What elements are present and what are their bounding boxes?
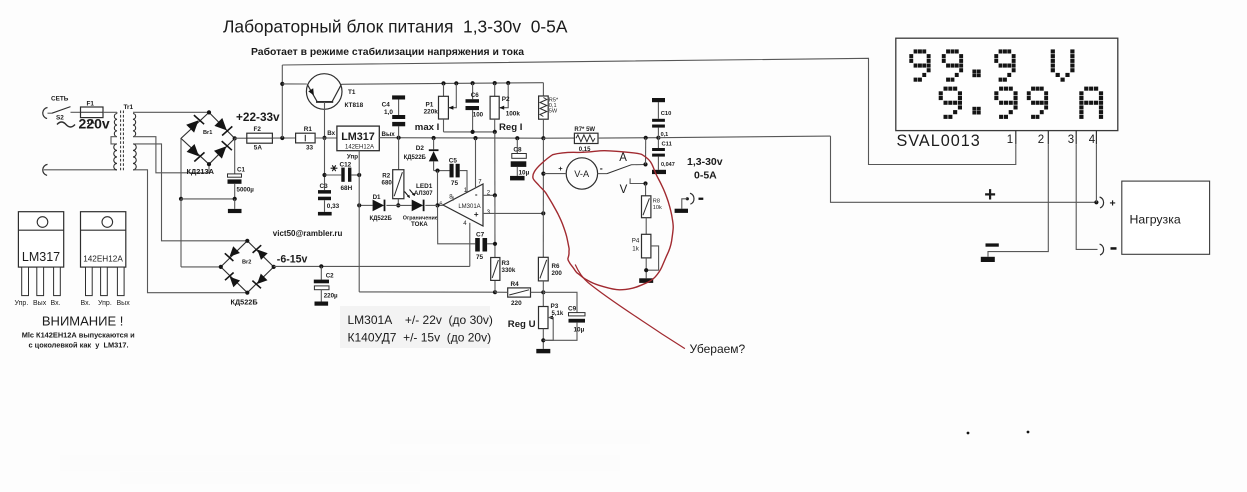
- display digit 9 (V tenths): [994, 49, 1015, 81]
- wire C10 to ground: [657, 102, 659, 119]
- wire to R4: [495, 291, 508, 293]
- load box Нагрузка: [1122, 181, 1210, 254]
- wire rail to plus corner: [658, 136, 830, 138]
- capacitor C1 electrolytic: [228, 174, 242, 177]
- wire VA minus lead: [598, 173, 607, 175]
- fuse F1: [81, 107, 104, 118]
- wire to C2: [320, 266, 322, 279]
- svg-text:ВНИМАНИЕ !: ВНИМАНИЕ !: [42, 313, 124, 328]
- svg-text:C5: C5: [449, 158, 458, 165]
- 142EH12A pkg pin1: [86, 267, 93, 296]
- svg-text:10k: 10k: [653, 205, 662, 211]
- wire C4 to ground: [398, 100, 400, 116]
- node P1 top: [441, 81, 445, 85]
- wire C8 to ground: [516, 167, 518, 176]
- svg-text:100: 100: [473, 112, 484, 119]
- svg-text:D2: D2: [416, 145, 425, 152]
- wire C3 column: [324, 138, 326, 190]
- wire to C6: [472, 83, 474, 99]
- svg-text:Reg U: Reg U: [508, 319, 536, 330]
- wire ADJ rail left: [359, 291, 495, 293]
- svg-text:-6-15v: -6-15v: [277, 254, 308, 266]
- stray dot 1: [967, 432, 970, 435]
- node ground bus left: [179, 197, 183, 201]
- pin 1 tick: [1015, 131, 1017, 145]
- node C12 left: [322, 173, 326, 177]
- wire D1 to LED1: [386, 204, 411, 206]
- display digit 9 (A units): [939, 87, 962, 119]
- wire to C9: [543, 292, 577, 312]
- svg-text:P4: P4: [632, 237, 640, 244]
- wire Upr to D1: [359, 204, 372, 206]
- node C12 right: [357, 173, 361, 177]
- node C8: [515, 136, 519, 140]
- wire feedback column upper: [494, 132, 496, 196]
- wire feedback column lower: [494, 195, 496, 292]
- ground P4: [639, 278, 653, 283]
- wire to output node: [437, 171, 439, 206]
- switch SA blade: [607, 165, 632, 174]
- resistor R8: [642, 196, 651, 218]
- wire rail to R7: [543, 137, 574, 139]
- svg-text:68Н: 68Н: [341, 185, 353, 192]
- svg-text:R2: R2: [382, 172, 390, 179]
- wire switch to F1: [71, 111, 81, 113]
- svg-text:200: 200: [552, 270, 563, 277]
- ground C4 top: [392, 95, 405, 99]
- svg-text:R8: R8: [653, 199, 660, 205]
- svg-text:2: 2: [1038, 134, 1044, 146]
- wire secondary lower bottom to Br2 bottom: [133, 170, 247, 293]
- wire switch pivot: [48, 112, 53, 114]
- svg-text:Tr1: Tr1: [124, 104, 134, 111]
- node C5 left: [435, 169, 439, 173]
- wire R2 bottom: [397, 199, 399, 206]
- wire top line to display pin1: [282, 58, 1016, 164]
- svg-text:КД522Б: КД522Б: [231, 297, 258, 306]
- svg-text:3: 3: [1068, 134, 1074, 146]
- wire pin8 stub: [452, 196, 454, 201]
- svg-text:1,0: 1,0: [384, 109, 393, 116]
- svg-text:142ЕН12А: 142ЕН12А: [345, 145, 374, 151]
- node riser bottom: [280, 136, 284, 140]
- svg-text:V: V: [620, 184, 628, 196]
- Br1 diode bottom-right: [214, 146, 226, 158]
- wire P1 bottom: [443, 119, 445, 132]
- LED1 arrows: [405, 192, 410, 198]
- svg-text:330k: 330k: [502, 267, 516, 274]
- svg-text:LM317: LM317: [22, 250, 60, 264]
- node C1 ground bus: [233, 197, 237, 201]
- svg-text:max I: max I: [415, 122, 440, 133]
- svg-text:R1: R1: [304, 126, 313, 133]
- wire down to Br2 left: [180, 199, 182, 267]
- svg-text:Упр.: Упр.: [15, 300, 29, 307]
- Br1 diode top-right: [214, 118, 226, 130]
- node V contact: [643, 181, 647, 185]
- wire to T1 emitter: [282, 83, 307, 85]
- display digit 9 (A tenths): [994, 87, 1017, 119]
- capacitor C11: [652, 148, 665, 151]
- wire rail to A contact: [645, 138, 647, 165]
- Br1 diode top-left: [186, 120, 198, 132]
- mains terminal lower arc: [43, 164, 48, 175]
- wire to P1: [443, 83, 445, 96]
- node emitter tap: [280, 82, 284, 86]
- wire riser to top line: [281, 65, 283, 138]
- svg-text:5A: 5A: [254, 145, 263, 152]
- ~ symbol: [57, 122, 75, 127]
- wire D2 to C5: [434, 170, 450, 172]
- svg-text:C12: C12: [340, 162, 352, 169]
- resistor R1: [296, 133, 316, 143]
- wire C4 lead: [398, 126, 400, 137]
- wire R5 to rail: [542, 119, 544, 138]
- wire T1 base down: [324, 102, 326, 138]
- svg-text:C7: C7: [476, 232, 485, 239]
- label C12 asterisk: [331, 165, 338, 171]
- capacitor C8 electrolytic: [512, 154, 527, 159]
- wire P1 wiper: [448, 83, 456, 107]
- wire A contact tick: [632, 164, 646, 166]
- svg-text:Вых: Вых: [117, 300, 131, 307]
- display letter A: [1079, 87, 1103, 119]
- svg-text:Вх: Вх: [327, 130, 335, 137]
- svg-text:0,33: 0,33: [327, 203, 340, 210]
- svg-text:C8: C8: [513, 147, 522, 154]
- wire rail after R7: [598, 137, 658, 139]
- 142EH12A pkg pin3: [117, 267, 124, 296]
- svg-text:Лабораторный блок питания 1,3: Лабораторный блок питания 1,3-30v 0-5А: [223, 16, 568, 36]
- ground display minus: [981, 257, 995, 262]
- wire pin3: [483, 212, 543, 214]
- pin 3 tick: [1075, 131, 1077, 145]
- wire C12 to Upr column: [351, 174, 359, 176]
- wire P2 bottom: [494, 119, 496, 132]
- fuse F2: [247, 133, 273, 143]
- red freehand loop annotation: [533, 151, 673, 290]
- capacitor C10: [652, 125, 665, 128]
- svg-text:C11: C11: [662, 142, 673, 148]
- Br2 diode bottom-right: [257, 274, 267, 284]
- display digit 9 (V tens): [909, 49, 930, 81]
- wire pin7 supply: [475, 138, 477, 188]
- node plus terminal: [1094, 200, 1098, 204]
- display digit 9 (A hundredths): [1027, 87, 1048, 119]
- resistor R2: [393, 170, 404, 199]
- wire output to C7: [438, 205, 476, 243]
- node P2 bus: [493, 130, 497, 134]
- capacitor C12: [341, 168, 344, 182]
- svg-text:T1: T1: [348, 89, 356, 96]
- node A contact: [643, 162, 647, 166]
- wire secondary upper top to Br1 top: [133, 111, 209, 113]
- pin 4 tick: [1095, 131, 1097, 145]
- diode D1: [373, 200, 385, 212]
- node output: [435, 203, 439, 207]
- wire rail to C8: [516, 138, 518, 153]
- wire C10 lead: [657, 128, 659, 138]
- ground C8: [510, 176, 525, 181]
- svg-text:ТОКА: ТОКА: [411, 221, 428, 228]
- bridge rectifier Br1 diamond: [181, 112, 235, 164]
- node Br1 bottom: [207, 162, 211, 166]
- wire F2 to R1: [272, 137, 295, 139]
- svg-text:Мlс К142ЕН12А выпускаются и: Мlс К142ЕН12А выпускаются и: [22, 330, 135, 339]
- wire to C12: [325, 174, 342, 176]
- svg-text:АЛ307: АЛ307: [414, 191, 433, 197]
- svg-text:КТ818: КТ818: [345, 102, 364, 109]
- 142EH12A pkg pin2: [101, 267, 108, 296]
- wire primary jog: [111, 137, 117, 144]
- node pin2 feedback: [493, 193, 497, 197]
- wire primary top stub: [116, 112, 118, 113]
- wire C1 to ground: [234, 199, 236, 209]
- red pointer line annotation: [575, 265, 685, 349]
- wire sense column: [542, 138, 544, 257]
- wire rail to R5: [542, 83, 544, 96]
- wire C11 lead: [657, 138, 659, 148]
- wire Br1 left to ground bus: [180, 138, 182, 199]
- svg-text:0,047: 0,047: [661, 162, 675, 168]
- svg-text:КД213А: КД213А: [187, 167, 215, 176]
- wire C5 to pin1: [460, 171, 467, 193]
- wire pin2: [483, 194, 495, 196]
- svg-text:Вх.: Вх.: [81, 300, 91, 307]
- node A-contact drop: [644, 136, 648, 140]
- wire P2 wiper: [499, 83, 508, 108]
- node R2 D1 wire: [396, 203, 400, 207]
- node Br2 left: [219, 265, 223, 269]
- svg-text:D1: D1: [373, 194, 381, 201]
- svg-text:C10: C10: [661, 111, 672, 117]
- node P2 top: [493, 81, 497, 85]
- svg-text:Убераем?: Убераем?: [690, 342, 746, 356]
- wire pin4 to negative rail: [469, 223, 471, 267]
- ground C10 top: [652, 98, 665, 102]
- svg-text:75: 75: [451, 180, 459, 187]
- wire C9 bottom: [543, 323, 577, 341]
- svg-text:+: +: [1110, 197, 1116, 209]
- stray dot 2: [1027, 431, 1030, 434]
- capacitor C6: [466, 99, 480, 103]
- wire pin3 to load minus: [1076, 144, 1097, 249]
- svg-text:1: 1: [1007, 134, 1013, 146]
- ground output jack: [675, 209, 688, 213]
- svg-text:0,1: 0,1: [661, 132, 669, 138]
- display module box: [896, 38, 1118, 130]
- display decimal point V: [972, 70, 980, 78]
- wire Vyh rail: [379, 137, 543, 140]
- svg-text:4: 4: [1089, 134, 1096, 146]
- 142EH12A package TO-220: [81, 212, 126, 267]
- faint scan streaks: [60, 455, 620, 471]
- ground C3: [318, 212, 332, 216]
- LM317 package TO-220: [18, 212, 63, 267]
- node R5 bottom: [541, 136, 545, 140]
- Br2 diode top-left: [230, 246, 240, 256]
- node P2 wiper: [506, 81, 510, 85]
- svg-text:142ЕН12А: 142ЕН12А: [83, 255, 123, 264]
- svg-text:Вых: Вых: [382, 131, 396, 138]
- svg-text:0-5A: 0-5A: [694, 170, 717, 182]
- svg-text:220k: 220k: [424, 109, 439, 116]
- potentiometer P1: [439, 96, 449, 119]
- node base rail: [322, 136, 326, 140]
- wire D2 bottom: [433, 161, 435, 170]
- svg-text:33: 33: [306, 144, 314, 151]
- node C4: [397, 136, 401, 140]
- ground P3: [536, 349, 550, 353]
- node Br1 top: [207, 110, 211, 114]
- svg-text:Reg I: Reg I: [499, 122, 523, 133]
- resistor R7 shunt: [574, 133, 598, 143]
- Br2 diode bottom-left: [230, 277, 240, 287]
- svg-text:100k: 100k: [506, 110, 521, 117]
- bridge rectifier Br2 diamond: [221, 241, 274, 293]
- wire VA plus lead: [543, 173, 566, 175]
- wire R4 to P3 node: [531, 291, 544, 293]
- node Upr D1: [357, 203, 361, 207]
- node Br2 right: [272, 265, 276, 269]
- node C7 right: [493, 242, 497, 246]
- capacitor C3: [318, 190, 331, 194]
- node C2 tap: [319, 264, 323, 268]
- wire P4 wiper: [646, 246, 658, 270]
- resistor R5 shunt: [539, 96, 549, 119]
- wire to Br2 left corner: [181, 266, 221, 268]
- svg-text:C6: C6: [471, 92, 479, 99]
- node VA plus tap: [541, 172, 545, 176]
- wire P4 to ground: [645, 258, 647, 278]
- wire Upr column: [358, 151, 360, 292]
- mains terminal upper arc: [43, 108, 48, 119]
- svg-text:SVAL0013: SVAL0013: [897, 132, 981, 150]
- node pin3 sense: [541, 211, 545, 215]
- wire to R2: [398, 138, 400, 170]
- LM317 pkg pin3: [54, 267, 61, 296]
- svg-text:Нагрузка: Нагрузка: [1130, 212, 1181, 226]
- svg-text:C9: C9: [568, 306, 577, 313]
- svg-text:LED1: LED1: [416, 183, 433, 190]
- wire V contact tick: [630, 178, 645, 183]
- transformer Tr1 primary winding upper: [114, 114, 117, 137]
- svg-text:P2: P2: [502, 96, 510, 103]
- op-amp U1 LM301A: [443, 184, 483, 226]
- svg-text:Br2: Br2: [242, 260, 251, 266]
- node C6 bus: [471, 130, 475, 134]
- LED LED1: [412, 200, 424, 212]
- wire Br1 right to C1: [234, 138, 236, 174]
- svg-text:Упр.: Упр.: [98, 300, 112, 307]
- svg-text:Вых: Вых: [33, 300, 47, 307]
- svg-text:с цоколевкой как у LM317.: с цоколевкой как у LM317.: [29, 340, 129, 349]
- wire pin2 to ground: [988, 144, 1048, 257]
- svg-text:1k: 1k: [632, 246, 639, 253]
- wire collector rail: [350, 83, 543, 85]
- svg-text:СЕТЬ: СЕТЬ: [51, 96, 69, 103]
- node D2: [432, 136, 436, 140]
- node C10 C11: [656, 136, 660, 140]
- svg-text:1,3-30v: 1,3-30v: [687, 156, 723, 168]
- capacitor C7: [475, 238, 480, 252]
- svg-text:-: -: [600, 163, 603, 173]
- node P4 bottom: [644, 268, 648, 272]
- wire R1 to LM317: [315, 137, 337, 139]
- svg-text:R7* 5W: R7* 5W: [574, 127, 595, 133]
- wire plus output: [831, 136, 1097, 202]
- wire P3 wiper: [543, 318, 553, 341]
- capacitor C2 electrolytic: [314, 280, 329, 284]
- wire R8 to P4: [645, 218, 647, 235]
- wire C1 to bus: [234, 184, 236, 199]
- regulator U LM317 block: [337, 126, 379, 151]
- svg-text:5W: 5W: [549, 109, 558, 115]
- svg-text:КД522Б: КД522Б: [404, 155, 427, 161]
- svg-text:5,1k: 5,1k: [552, 311, 564, 317]
- svg-text:10µ: 10µ: [519, 170, 530, 177]
- wire pin4 to plus node: [1095, 144, 1097, 202]
- capacitor C5: [450, 164, 454, 178]
- svg-text:R4: R4: [511, 281, 520, 288]
- potentiometer P3: [539, 307, 549, 329]
- svg-text:C3: C3: [320, 183, 329, 190]
- capacitor C9 electrolytic: [569, 313, 586, 316]
- svg-text:К140УД7 +/- 15v (до 20v): К140УД7 +/- 15v (до 20v): [348, 331, 492, 345]
- load minus jack: [1100, 244, 1104, 255]
- svg-text:Br1: Br1: [203, 130, 212, 136]
- load plus jack: [1100, 197, 1104, 208]
- svg-text:5000µ: 5000µ: [237, 187, 255, 194]
- node P3 top: [541, 290, 545, 294]
- display digit 9 (V units): [942, 49, 963, 81]
- diode D2: [429, 149, 439, 151]
- light scan-shade behind notes: [340, 306, 490, 348]
- label minus small: [699, 198, 704, 200]
- node pin7 supply: [473, 136, 477, 140]
- node R3 bottom: [493, 290, 497, 294]
- display letter V: [1051, 49, 1075, 81]
- wire C6 bottom: [472, 110, 474, 132]
- wire to P3: [542, 292, 544, 306]
- resistor R3: [491, 258, 500, 281]
- svg-text:75: 75: [476, 254, 484, 261]
- wire C3 to ground: [324, 200, 326, 212]
- switch S2 blade: [52, 107, 71, 114]
- wire Br1 to F2: [235, 137, 247, 139]
- svg-text:F2: F2: [254, 126, 262, 133]
- svg-text:КД522Б: КД522Б: [370, 216, 393, 222]
- wire -6-15v rail: [274, 265, 470, 267]
- ground bus wire: [181, 198, 235, 200]
- ground: [315, 302, 329, 306]
- resistor R6: [538, 257, 548, 281]
- wire C2 to ground: [320, 290, 322, 302]
- wire V contact to R8: [645, 184, 647, 196]
- wire C11 to ground: [657, 157, 659, 170]
- pin 2 tick: [1047, 131, 1049, 145]
- meter V-A: [566, 158, 597, 189]
- svg-text:+: +: [558, 164, 563, 173]
- ground: [228, 209, 242, 213]
- wire mains lower to Tr1: [44, 169, 117, 171]
- wire jack to ground: [682, 199, 688, 209]
- label big minus bar: [986, 243, 999, 246]
- svg-text:220: 220: [511, 300, 522, 307]
- svg-text:F1: F1: [87, 100, 95, 107]
- svg-text:Работает в режиме стабилизации: Работает в режиме стабилизации напряжени…: [251, 46, 524, 58]
- transformer core: [120, 111, 122, 173]
